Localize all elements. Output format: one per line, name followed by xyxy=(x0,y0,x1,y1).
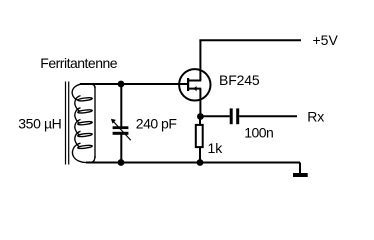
wire source down xyxy=(199,89,201,117)
svg-text:350 µH: 350 µH xyxy=(18,116,61,132)
inductor L1 350uH coil xyxy=(72,84,95,163)
wire ground rail xyxy=(86,162,300,164)
variable capacitor C1 arrow xyxy=(111,119,131,140)
transistor Q1 BF245 circle xyxy=(179,69,210,100)
turn lens 2 xyxy=(78,109,93,113)
wire drain up xyxy=(199,40,201,80)
capacitor C2 100n plates xyxy=(230,108,240,124)
svg-text:BF245: BF245 xyxy=(219,72,260,88)
transistor Q1 gate arrow xyxy=(193,86,196,91)
ground symbol xyxy=(293,173,308,177)
turn arc 1 xyxy=(75,96,81,111)
wire ground stub xyxy=(299,163,301,174)
wire C2 to Rx xyxy=(239,115,297,117)
turn lens 3 xyxy=(78,121,93,125)
node junction dot top of C1 xyxy=(118,81,125,88)
wire R1 bottom xyxy=(199,148,201,163)
wire C1 bottom lead xyxy=(120,135,122,163)
inductor L1 ferrite core xyxy=(66,82,69,165)
svg-text:+5V: +5V xyxy=(313,32,339,48)
wire node to R1 xyxy=(199,117,201,125)
wire tank top: coil to gate xyxy=(80,83,187,85)
bottom turn arc xyxy=(72,143,86,162)
svg-text:1k: 1k xyxy=(208,140,224,156)
turn arc 4 xyxy=(75,131,81,146)
transistor Q1 source bar xyxy=(188,88,201,90)
transistor Q1 drain bar xyxy=(188,80,201,82)
variable capacitor C1 240pF plates xyxy=(113,126,129,135)
node junction dot R1 bottom xyxy=(197,159,204,166)
svg-text:Rx: Rx xyxy=(307,109,324,125)
bottom corner into wire xyxy=(90,156,95,163)
node junction dot C1 bottom xyxy=(118,159,125,166)
top corner into wire xyxy=(90,84,95,88)
right edge of winding xyxy=(94,87,96,159)
wire node to C2 xyxy=(200,115,229,117)
transistor Q1 channel bar xyxy=(187,78,189,91)
turn lens 4 xyxy=(78,133,93,137)
wire +5V rail xyxy=(199,39,301,41)
svg-text:240 pF: 240 pF xyxy=(136,116,177,132)
turn arc 3 xyxy=(75,120,81,135)
top turn arc xyxy=(72,84,82,100)
turn arc 2 xyxy=(75,108,81,123)
svg-text:Ferritantenne: Ferritantenne xyxy=(40,55,117,71)
resistor R1 1k body xyxy=(196,125,203,147)
wire C1 top lead xyxy=(120,84,122,127)
node junction dot source xyxy=(197,113,204,120)
turn lens 1 xyxy=(78,97,93,101)
svg-text:100n: 100n xyxy=(244,125,273,141)
turn lens 5 xyxy=(78,145,93,149)
